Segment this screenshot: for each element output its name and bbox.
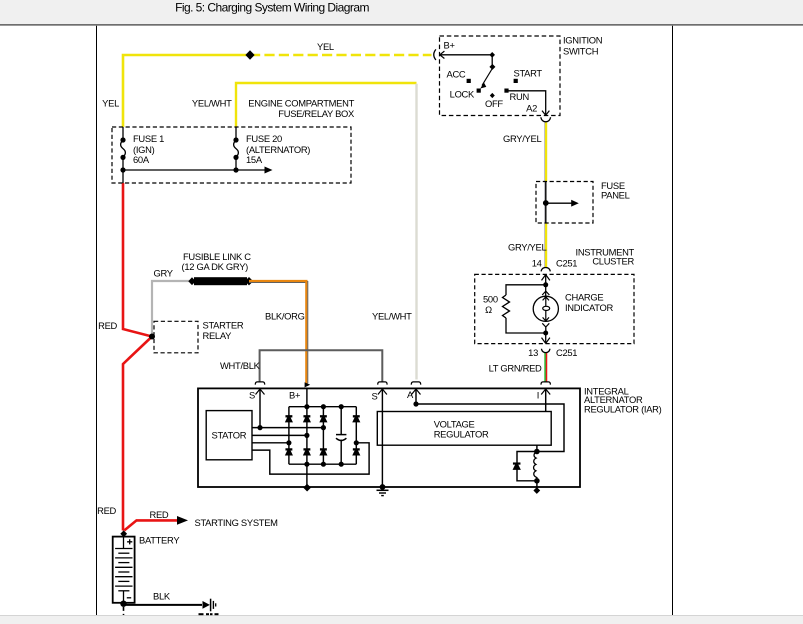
svg-text:BATTERY: BATTERY bbox=[139, 535, 180, 546]
svg-text:PANEL: PANEL bbox=[601, 189, 630, 200]
svg-text:CLUSTER: CLUSTER bbox=[592, 256, 634, 267]
svg-text:FUSE 1: FUSE 1 bbox=[133, 133, 164, 144]
svg-text:GRY: GRY bbox=[154, 267, 174, 278]
svg-text:ACC: ACC bbox=[447, 69, 466, 80]
svg-text:YEL: YEL bbox=[317, 41, 334, 52]
svg-text:GRY/YEL: GRY/YEL bbox=[503, 133, 541, 144]
svg-text:ENGINE COMPARTMENT: ENGINE COMPARTMENT bbox=[248, 98, 354, 109]
svg-text:LOCK: LOCK bbox=[450, 89, 475, 100]
svg-text:YEL/WHT: YEL/WHT bbox=[372, 311, 412, 322]
svg-text:I: I bbox=[537, 390, 539, 401]
svg-text:14: 14 bbox=[532, 257, 542, 268]
svg-text:FUSE 20: FUSE 20 bbox=[246, 133, 282, 144]
svg-text:S: S bbox=[249, 390, 255, 401]
svg-text:FUSE/RELAY BOX: FUSE/RELAY BOX bbox=[278, 108, 355, 119]
svg-text:C251: C251 bbox=[556, 258, 577, 269]
svg-text:Fig. 5: Charging System Wiring: Fig. 5: Charging System Wiring Diagram bbox=[175, 1, 369, 15]
svg-text:BLK/ORG: BLK/ORG bbox=[265, 311, 305, 322]
svg-text:GRY/YEL: GRY/YEL bbox=[508, 242, 546, 253]
svg-text:RED: RED bbox=[98, 320, 117, 331]
svg-text:IGNITION: IGNITION bbox=[563, 35, 602, 46]
svg-text:RED: RED bbox=[97, 505, 116, 516]
svg-text:RELAY: RELAY bbox=[203, 330, 233, 341]
svg-text:(12 GA DK GRY): (12 GA DK GRY) bbox=[182, 261, 249, 272]
svg-text:LT GRN/RED: LT GRN/RED bbox=[489, 363, 542, 374]
svg-text:RUN: RUN bbox=[510, 91, 529, 102]
svg-text:START: START bbox=[514, 68, 543, 79]
svg-text:STARTER: STARTER bbox=[203, 320, 244, 331]
svg-text:INDICATOR: INDICATOR bbox=[565, 302, 614, 313]
svg-text:REGULATOR (IAR): REGULATOR (IAR) bbox=[584, 403, 662, 414]
svg-text:RED: RED bbox=[150, 509, 169, 520]
svg-text:A2: A2 bbox=[526, 103, 537, 114]
svg-text:60A: 60A bbox=[133, 154, 150, 165]
svg-text:SWITCH: SWITCH bbox=[563, 46, 598, 57]
svg-text:S: S bbox=[371, 391, 377, 402]
svg-text:B+: B+ bbox=[289, 390, 301, 401]
svg-text:B+: B+ bbox=[444, 40, 456, 51]
svg-text:Ω: Ω bbox=[485, 304, 492, 315]
svg-text:YEL/WHT: YEL/WHT bbox=[192, 98, 232, 109]
svg-text:REGULATOR: REGULATOR bbox=[434, 429, 489, 440]
svg-text:OFF: OFF bbox=[485, 98, 503, 109]
svg-text:WHT/BLK: WHT/BLK bbox=[220, 360, 261, 371]
svg-text:C251: C251 bbox=[556, 347, 577, 358]
svg-text:STARTING SYSTEM: STARTING SYSTEM bbox=[195, 517, 279, 528]
svg-text:A: A bbox=[407, 389, 414, 400]
svg-text:STATOR: STATOR bbox=[212, 430, 247, 441]
svg-text:BLK: BLK bbox=[153, 591, 171, 602]
svg-text:YEL: YEL bbox=[102, 98, 119, 109]
svg-text:15A: 15A bbox=[246, 154, 263, 165]
svg-text:13: 13 bbox=[528, 347, 538, 358]
